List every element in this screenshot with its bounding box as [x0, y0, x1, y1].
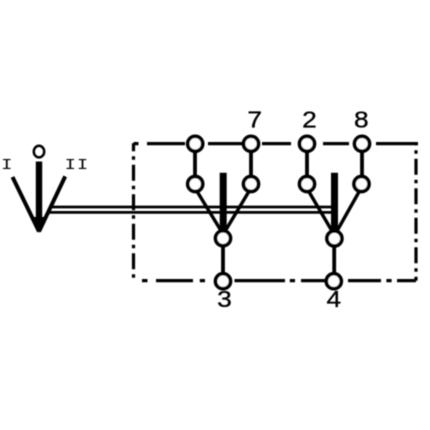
svg-text:3: 3: [217, 286, 232, 312]
label position 0: [34, 146, 44, 158]
label terminal 4: [326, 286, 341, 312]
terminal circle top col2 (7): [244, 136, 259, 151]
enclosure dash-dot box: left edge: [132, 143, 135, 281]
terminal circle bottom (3): [216, 274, 231, 289]
toggle lever arrow tip: [33, 217, 45, 233]
wire: common stub left: [221, 246, 225, 273]
label position I: [1, 158, 12, 174]
label terminal 3: [217, 286, 232, 312]
svg-text:II: II: [65, 158, 90, 174]
terminal circle bottom (4): [326, 274, 341, 289]
toggle lever position I line: [13, 177, 40, 232]
fixed contact circle col2: [244, 177, 259, 192]
wire: moving contact right pole to terminal 2: [309, 191, 333, 232]
terminal circle top col3 (2): [300, 136, 315, 151]
terminal circle top col1: [188, 136, 203, 151]
toggle lever position II line: [39, 176, 65, 231]
actuator bar left: [220, 173, 227, 231]
toggle lever bar (position 0): [36, 162, 42, 225]
fixed contact circle col4: [354, 177, 369, 192]
linkage double line: [48, 207, 334, 212]
wire: terminal stub col 1: [193, 151, 197, 176]
wire: terminal stub col 2: [249, 151, 253, 176]
svg-text:I: I: [1, 158, 12, 174]
enclosure dash-dot box: bottom edge: [142, 279, 416, 282]
fixed contact circle col1: [188, 177, 203, 192]
wire: moving contact left pole to terminal 7: [225, 191, 249, 232]
wire: terminal stub col 4: [360, 151, 364, 176]
label terminal 7: [247, 107, 262, 133]
svg-text:7: 7: [247, 107, 262, 133]
wire: terminal stub col 3: [305, 151, 309, 176]
svg-text:8: 8: [354, 107, 369, 133]
terminal circle top col4 (8): [355, 136, 370, 151]
enclosure dash-dot box: top edge: [134, 143, 419, 281]
wire: moving contact left pole to terminal (no label): [197, 191, 222, 232]
label position II: [65, 158, 90, 174]
wire: common stub right: [332, 247, 336, 274]
common pivot circle left pole: [216, 231, 231, 246]
enclosure dash-dot box: right edge: [414, 144, 417, 281]
svg-text:2: 2: [302, 107, 317, 133]
label terminal 2: [302, 107, 317, 133]
fixed contact circle col3: [300, 177, 315, 192]
wire: moving contact right pole to terminal 8: [337, 191, 360, 232]
svg-text:4: 4: [326, 286, 341, 312]
actuator bar right: [331, 173, 338, 232]
label terminal 8: [354, 107, 369, 133]
common pivot circle right pole: [327, 231, 342, 246]
